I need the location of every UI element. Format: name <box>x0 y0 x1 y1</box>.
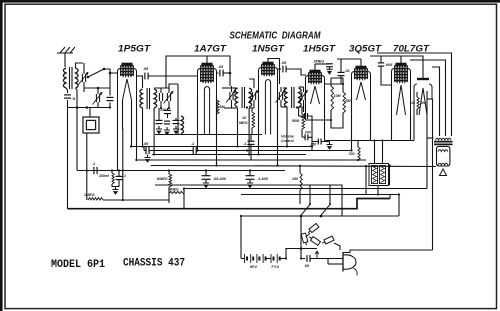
svg-text:50M: 50M <box>292 119 300 123</box>
plug P1 shell <box>342 253 344 272</box>
wire V2 top right run <box>207 56 230 86</box>
node junction <box>118 169 120 171</box>
wire C12 right <box>223 72 230 74</box>
speaker SP1 frame <box>437 146 450 166</box>
wire V1 plate lead <box>137 75 144 77</box>
selector contact 4 <box>321 236 334 245</box>
node junction <box>130 145 132 147</box>
wire x301 column <box>300 216 302 259</box>
wire rail R2 left <box>144 150 146 152</box>
wire T2 left leg <box>142 108 144 147</box>
wire V6a top <box>400 56 402 64</box>
svg-text:.006: .006 <box>385 63 393 67</box>
resistor R7 300mf pair <box>112 173 114 184</box>
resistor R3 10MEG <box>331 86 334 110</box>
scan edge bar top <box>0 0 500 3</box>
node junction <box>350 149 352 151</box>
node junction <box>109 106 111 108</box>
wire C20 leads <box>340 59 342 73</box>
wire rail R4 y160 <box>136 159 366 161</box>
transformer T4 IF2 <box>284 88 287 107</box>
wire C28 bottom <box>250 145 252 160</box>
capacitor C30 .250 <box>317 139 319 145</box>
wire C30 left <box>312 141 318 143</box>
resistor R11 volume 50M <box>302 114 305 129</box>
wire C32 to plug <box>310 258 343 260</box>
wire V1 left leg <box>117 100 119 171</box>
svg-text:MEG: MEG <box>239 121 248 125</box>
node junction <box>183 187 185 189</box>
wire rail R6 y170 <box>77 170 285 172</box>
svg-text:.1: .1 <box>92 162 95 166</box>
wire C31b top lead <box>382 141 384 164</box>
wire V1 right leg <box>136 100 138 160</box>
capacitor C31a 20mf <box>372 166 378 184</box>
wire volume wiper <box>302 136 305 138</box>
wire R11 bottom <box>301 129 303 137</box>
capacitor C10 <box>164 120 170 122</box>
node junction <box>153 153 155 155</box>
svg-text:.250: .250 <box>309 142 316 146</box>
node junction <box>381 139 383 141</box>
ground G11 <box>329 142 331 145</box>
wire C16 bottom <box>281 106 287 108</box>
wire bottom bus <box>68 199 391 209</box>
wire plate lead C <box>432 67 440 136</box>
ground G3 <box>175 126 177 129</box>
node junction <box>160 107 162 109</box>
resistor R4 5MEG <box>343 92 346 113</box>
wire plug top <box>343 250 433 253</box>
selector contact 1 <box>307 223 319 234</box>
wire V2 left leg <box>197 96 199 151</box>
wire rail R5 y165 <box>151 166 436 167</box>
wire C25 top <box>249 171 251 176</box>
wire R6 top <box>168 171 170 175</box>
node junction <box>330 119 332 121</box>
node x301 248 <box>300 247 303 250</box>
tube V2 1A7GT <box>202 63 213 66</box>
node junction <box>300 257 302 259</box>
wire rail R3 y154 <box>152 154 306 156</box>
wire T1 secondary top <box>76 63 84 68</box>
svg-text:SCHEMATIC DIAGRAM: SCHEMATIC DIAGRAM <box>230 31 322 42</box>
transformer T5 output primary <box>436 138 452 140</box>
node loop feed a <box>76 106 79 109</box>
wire V4 grid cap wire <box>315 63 330 65</box>
wire V6 tops jumper <box>401 56 423 72</box>
svg-text:.1: .1 <box>123 174 126 178</box>
wire R12 bottom <box>299 190 301 204</box>
wire row y140 <box>325 140 415 142</box>
svg-text:7½V: 7½V <box>271 264 280 269</box>
wire left rail <box>67 100 69 209</box>
battery B1 90V <box>244 254 246 263</box>
wire R1 bottom <box>216 114 218 120</box>
svg-text:.004: .004 <box>304 131 311 135</box>
node junction <box>377 193 379 195</box>
wire R12 top <box>299 166 301 173</box>
wire C3 leads <box>97 88 99 94</box>
capacitor C31 filter can outline <box>369 164 389 186</box>
ground G2 <box>166 127 168 130</box>
wire plug prong 2 <box>328 263 343 265</box>
wire R13 top <box>357 141 359 148</box>
svg-text:Volume: Volume <box>281 135 294 139</box>
node junction <box>122 169 124 171</box>
svg-text:Control: Control <box>281 139 295 143</box>
node sw2a bottom <box>300 215 303 218</box>
node junction <box>320 215 322 217</box>
wire x184 drop <box>183 189 185 209</box>
resistor R6 6MEG <box>169 174 172 187</box>
svg-text:6MEG: 6MEG <box>157 177 168 181</box>
wire V2 osc grid top <box>166 56 207 88</box>
antenna <box>57 47 75 53</box>
wire R9 right <box>183 189 184 194</box>
capacitor C21 .006 <box>378 62 384 64</box>
node junction <box>276 164 278 166</box>
capacitor C19 grid <box>326 63 333 65</box>
capacitor C25 .1-400 <box>246 175 255 177</box>
tuning capacitor C2 <box>81 74 83 82</box>
wire C14 leads <box>253 100 255 108</box>
wire R4 bottom <box>331 113 343 128</box>
wire V6b left leg <box>413 115 415 141</box>
wire rail R2 stub <box>143 147 145 151</box>
wire rectifier cathode <box>431 99 434 250</box>
tuning capacitor C14 <box>251 92 253 100</box>
wire T4 left leg <box>286 107 288 147</box>
svg-text:10M: 10M <box>334 94 342 98</box>
wire R9 stub <box>168 187 170 203</box>
wire C14 bottom <box>249 107 254 109</box>
wire 3Q5 left leg tap <box>351 141 353 151</box>
wire battery top rail <box>241 215 399 217</box>
wire switch feed left <box>309 185 311 204</box>
wire T3 top left <box>222 87 238 89</box>
wire V4 right leg <box>324 104 326 111</box>
wire C8 leads <box>167 108 169 111</box>
wire loop to 1meg <box>86 171 88 201</box>
node junction <box>111 169 113 171</box>
node junction <box>240 215 242 217</box>
wire V5 right leg <box>370 100 372 141</box>
wire x312 link <box>311 131 313 151</box>
wire V3 right leg <box>277 96 279 166</box>
wire R10 top <box>251 108 253 113</box>
wire V2 plate lead <box>217 72 219 74</box>
resistor R8 1MEG <box>88 198 103 200</box>
wire V5 grid top run <box>337 58 361 60</box>
wire T2 right leg <box>153 108 155 155</box>
wire V2 right leg <box>216 96 218 166</box>
capacitor C4 <box>107 96 114 98</box>
node junction <box>205 169 207 171</box>
svg-text:90V: 90V <box>250 264 257 269</box>
wire antenna coil bottom <box>66 88 68 93</box>
resistor R13 700 <box>358 147 360 160</box>
capacitor C18 .01 <box>304 113 306 119</box>
svg-text:1MEG: 1MEG <box>84 193 95 197</box>
wire T2 primary top <box>142 76 144 88</box>
wire L2 top lead <box>177 84 179 115</box>
node junction <box>122 199 124 201</box>
ground G5 speaker <box>440 169 447 176</box>
wire x427 drop <box>426 91 428 189</box>
node junction <box>286 145 288 147</box>
tuning capacitor C17 <box>301 92 303 100</box>
wire C16 leads <box>280 87 282 92</box>
wire V6a left leg <box>391 115 393 141</box>
wire C2 leads <box>83 63 85 74</box>
wire C13 bottom bus <box>224 107 238 109</box>
wire loop feed <box>68 107 111 109</box>
wire prong2 drop <box>327 259 329 265</box>
capacitor C23 .1 inline <box>192 147 194 154</box>
node junction <box>86 169 88 171</box>
loop connector J1 inner <box>86 120 95 129</box>
wire plate lead A <box>377 53 452 136</box>
node junction <box>246 106 248 108</box>
node junction <box>398 193 400 195</box>
capacitor C20 .04 <box>338 71 345 73</box>
wire T3 top right <box>249 79 254 88</box>
wire T4 top <box>283 87 287 89</box>
loop connector J1 outer <box>83 117 99 133</box>
wire T3 right leg <box>248 108 250 155</box>
wire C7 leads <box>168 88 170 93</box>
wire V3 grid top <box>268 59 280 85</box>
svg-text:.05-400: .05-400 <box>213 177 227 181</box>
ground G1 <box>158 126 160 129</box>
capacitor C6 padder <box>158 93 160 101</box>
node junction <box>135 159 137 161</box>
node junction <box>168 169 170 171</box>
node junction <box>196 149 198 151</box>
ground G6 <box>205 180 207 183</box>
resistor R5 15ohm <box>417 97 419 109</box>
speaker SP1 voice coil bottom <box>438 163 448 165</box>
svg-text:.05: .05 <box>281 61 287 65</box>
node C12 junction <box>229 72 232 75</box>
svg-text:.1-400: .1-400 <box>257 177 269 181</box>
capacitor C12 .05 <box>219 70 221 77</box>
node junction <box>365 165 367 167</box>
transformer T1 antenna coil <box>63 68 66 88</box>
coil L2 osc tickler <box>181 116 184 134</box>
wire V5 left leg <box>351 100 353 141</box>
svg-text:1P5GT: 1P5GT <box>118 44 152 54</box>
wire R3 bottom <box>330 110 332 120</box>
capacitor C29 .004 <box>304 134 306 140</box>
capacitor C9 <box>156 119 163 121</box>
ground G8 <box>115 187 117 190</box>
wire bottom power row <box>301 258 305 260</box>
wire 3Q5 screen link <box>324 111 326 141</box>
switch SW1 wave magnet <box>88 69 104 77</box>
switch SW2b <box>321 205 330 216</box>
wire battery left lead <box>240 216 242 259</box>
capacitor C28 .1 <box>247 140 254 142</box>
wire C18 to volume <box>299 112 305 116</box>
node junction <box>357 159 359 161</box>
tuning capacitor C3 gang <box>95 94 97 102</box>
svg-text:.05: .05 <box>143 67 149 71</box>
node junction <box>373 165 375 167</box>
capacitor C27 .1 bypass <box>116 175 123 177</box>
capacitor C8 100 <box>164 109 171 111</box>
wire rail R2 right <box>196 150 351 152</box>
selector contact 2 <box>301 233 308 246</box>
wire x366 drop <box>365 166 367 195</box>
wire switch feed right <box>329 185 331 204</box>
node junction <box>311 145 313 147</box>
node junction <box>248 153 250 155</box>
node junction <box>296 106 298 108</box>
wire speaker left <box>427 137 434 139</box>
node tuning bus <box>97 87 100 90</box>
speaker SP1 voice coil top <box>438 150 448 152</box>
wire V3 left leg <box>258 96 260 155</box>
wire V3 plate lead <box>278 68 282 70</box>
node junction <box>257 153 259 155</box>
wire C9 C10 tops <box>158 108 160 121</box>
node junction <box>249 169 251 171</box>
wire AVC link <box>325 78 344 84</box>
wire cathode bus <box>155 134 262 136</box>
svg-text:.1: .1 <box>191 142 194 146</box>
wire antenna lead <box>64 53 66 67</box>
tube V5 3Q5GT <box>356 66 367 69</box>
transformer T2 <box>140 89 143 108</box>
node junction <box>300 215 302 217</box>
capacitor C1 <box>64 94 71 96</box>
node junction <box>285 257 287 259</box>
wire x399 drop <box>398 195 400 217</box>
wire osc section top <box>154 84 178 88</box>
wire V1 plate inner leg <box>131 100 133 147</box>
wire bus y188 <box>184 188 427 190</box>
tube V6 70L7GT output section <box>396 63 407 66</box>
wire C17 bottom <box>299 107 304 112</box>
wire selector arm <box>306 233 310 237</box>
wire V6a right leg <box>410 115 412 141</box>
transformer T5 core <box>434 141 453 143</box>
wire R10 to C28 <box>251 128 252 141</box>
wire loop bottom lead <box>86 133 88 171</box>
wire R11 top <box>301 108 303 115</box>
wire T4 right leg <box>298 107 300 112</box>
svg-text:.1: .1 <box>243 142 246 146</box>
wire V4 left leg <box>306 104 332 120</box>
svg-text:CHASSIS 437: CHASSIS 437 <box>123 258 185 270</box>
wire V4 top lead <box>314 64 316 71</box>
resistor R10 10MEG <box>252 112 255 128</box>
ground G7 <box>249 180 251 183</box>
wire rail R1 y146 <box>131 146 312 148</box>
capacitor C24 .05-400 <box>202 175 211 177</box>
tuning capacitor C16 <box>278 92 280 100</box>
svg-text:150: 150 <box>292 177 298 181</box>
tube V6 rectifier section <box>417 78 429 80</box>
wire y185 run <box>155 185 342 216</box>
lamp arrow <box>315 251 319 258</box>
node junction <box>141 145 143 147</box>
scan edge bar left <box>0 0 3 311</box>
ground G4 <box>327 68 333 70</box>
capacitor C26 .1 <box>93 167 95 174</box>
wire lamp feed <box>301 248 317 250</box>
wire C31a top lead <box>374 141 376 164</box>
svg-text:1A7GT: 1A7GT <box>194 44 227 54</box>
wire R8 right <box>103 199 169 201</box>
svg-text:N: N <box>73 97 76 101</box>
wire rail R2 mid <box>149 150 193 152</box>
svg-text:300mf: 300mf <box>99 174 110 178</box>
resistor R12 150 <box>300 173 302 190</box>
capacitor C31b 20mf <box>380 166 386 184</box>
wire R4 top <box>342 84 344 92</box>
node sw2b bottom <box>320 215 323 218</box>
node loop feed b <box>86 106 89 109</box>
node grid junction <box>109 72 112 75</box>
wire plate lead B <box>410 60 446 136</box>
wire R5 bottom <box>416 109 418 115</box>
wire battery right lead <box>286 249 301 259</box>
wire V1 cathode leg <box>122 100 124 200</box>
wire C15 right <box>286 69 306 75</box>
tube V1 1P5GT <box>122 63 133 66</box>
wire V5 top <box>360 59 362 67</box>
switch SW2a <box>301 205 310 216</box>
wire V6b top lead <box>422 72 424 79</box>
svg-text:2MEG: 2MEG <box>313 60 325 64</box>
node junction <box>246 149 248 151</box>
wire bus y194 <box>241 194 399 196</box>
node x389 junction <box>388 164 391 167</box>
wire C31 bottom lead <box>377 186 379 195</box>
wire L2 bottom <box>180 133 182 136</box>
svg-text:300: 300 <box>420 101 426 105</box>
svg-text:4MEG: 4MEG <box>168 188 179 192</box>
tuning capacitor C13 <box>229 92 231 100</box>
wire C21 top run <box>370 55 401 57</box>
capacitor C5 .05 <box>144 73 146 80</box>
wire R5 top <box>416 92 418 97</box>
wire C21 leads <box>380 56 382 63</box>
svg-text:70L7GT: 70L7GT <box>393 44 430 54</box>
wire C30 right <box>321 141 329 143</box>
node junction <box>299 165 301 167</box>
node junction <box>236 145 238 147</box>
wire R7 C27 bottoms <box>112 180 119 187</box>
svg-text:1N5GT: 1N5GT <box>252 44 285 54</box>
wire T3 left leg <box>237 108 239 147</box>
capacitor C32 .05 <box>306 255 308 262</box>
selector contact 3 <box>308 235 320 246</box>
svg-text:700: 700 <box>349 152 355 156</box>
node junction <box>373 139 375 141</box>
capacitor C22 .05 inline <box>145 147 147 154</box>
wire C6 leads <box>160 88 162 93</box>
wire x77 rail <box>76 88 78 171</box>
plug P1 cord <box>354 268 358 276</box>
svg-text:.04: .04 <box>345 69 350 73</box>
wire tuning bus top <box>84 87 110 89</box>
tube V4 1H5GT <box>310 70 321 73</box>
wire C4 leads <box>109 73 111 96</box>
